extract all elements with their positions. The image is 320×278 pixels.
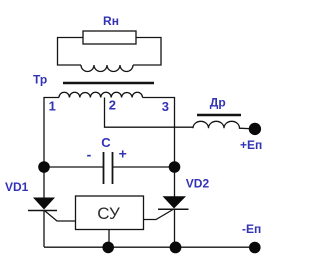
junction dot right cap rail: [169, 161, 181, 173]
wire left of Rн loop: [58, 38, 84, 66]
junction dot left cap rail: [38, 161, 50, 173]
wire VD1 cathode down: [43, 211, 45, 248]
control unit СУ box: [76, 196, 144, 230]
choke Др winding (3 humps): [193, 121, 249, 128]
terminal -Еп dot: [249, 242, 261, 254]
junction dot СУ bottom: [102, 242, 114, 254]
svg-text:-: -: [87, 147, 92, 163]
resistor Rн body: [83, 31, 136, 44]
svg-text:VD2: VD2: [186, 177, 210, 191]
wire bottom rail: [44, 246, 249, 248]
thyristor VD1 cathode bar: [28, 210, 57, 212]
svg-text:СУ: СУ: [97, 204, 120, 223]
svg-text:2: 2: [109, 97, 116, 112]
svg-text:Др: Др: [210, 96, 226, 110]
svg-text:VD1: VD1: [5, 180, 29, 194]
wire VD2 cathode down: [174, 209, 176, 248]
choke core line: [197, 114, 241, 116]
wire tap 2 down and right to choke: [105, 98, 194, 128]
terminal +Еп dot: [249, 123, 261, 135]
thyristor VD2 gate wire: [144, 210, 174, 220]
svg-text:+: +: [119, 146, 127, 162]
junction dot VD2 bottom: [170, 242, 182, 254]
svg-text:C: C: [101, 135, 111, 150]
svg-text:+Еп: +Еп: [240, 138, 262, 152]
svg-text:1: 1: [49, 99, 56, 114]
svg-text:-Еп: -Еп: [242, 222, 261, 236]
transformer core: [63, 82, 154, 85]
wire terminal 1 to left rail: [44, 98, 59, 199]
thyristor VD2 cathode bar: [158, 208, 189, 210]
transformer winding W1 (4 humps, bulge down): [81, 65, 133, 72]
svg-text:Тр: Тр: [33, 73, 47, 87]
thyristor VD1 triangle: [33, 198, 55, 210]
wire right of Rн loop: [133, 38, 161, 66]
thyristor VD2 triangle: [163, 196, 187, 208]
thyristor VD1 gate wire: [45, 211, 76, 221]
transformer winding W2 (8 humps, bulge up): [59, 92, 143, 97]
wire cap row right: [113, 166, 175, 168]
svg-text:3: 3: [162, 99, 169, 114]
wire cap row left: [44, 166, 103, 168]
svg-text:Rн: Rн: [103, 14, 119, 28]
wire СУ bottom down: [108, 230, 110, 248]
capacitor C plates: [103, 152, 105, 184]
wire terminal 3 to right rail: [143, 98, 175, 198]
